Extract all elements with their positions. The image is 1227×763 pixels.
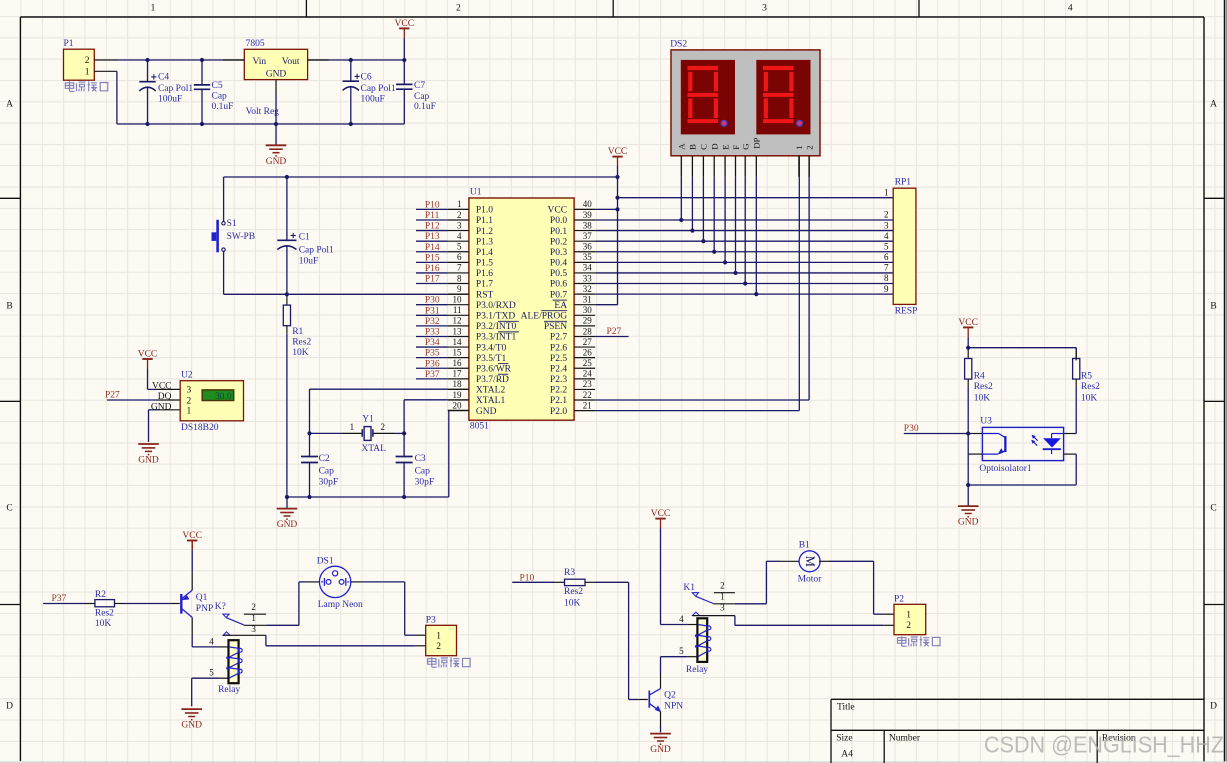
svg-text:Res2: Res2 <box>564 587 583 597</box>
svg-text:U1: U1 <box>470 188 482 198</box>
svg-text:38: 38 <box>583 220 593 230</box>
svg-text:P3.5/T1: P3.5/T1 <box>476 354 507 364</box>
svg-text:6: 6 <box>884 252 889 262</box>
svg-text:Relay: Relay <box>686 665 708 675</box>
svg-text:P37: P37 <box>52 594 67 604</box>
svg-text:22: 22 <box>583 390 592 400</box>
svg-text:2: 2 <box>251 602 256 612</box>
svg-text:P2.1: P2.1 <box>550 396 567 406</box>
svg-text:4: 4 <box>457 231 462 241</box>
svg-text:5: 5 <box>209 668 214 678</box>
svg-text:P16: P16 <box>425 264 440 274</box>
svg-text:RESP: RESP <box>895 306 918 316</box>
svg-text:Vin: Vin <box>253 57 267 67</box>
svg-text:34: 34 <box>583 263 593 273</box>
svg-text:7805: 7805 <box>246 39 265 49</box>
svg-text:2: 2 <box>380 422 385 432</box>
svg-text:B1: B1 <box>799 540 810 550</box>
svg-text:R5: R5 <box>1081 372 1092 382</box>
svg-text:4: 4 <box>884 231 889 241</box>
svg-text:P3.1/TXD: P3.1/TXD <box>476 312 515 322</box>
svg-text:24: 24 <box>583 369 593 379</box>
svg-text:XTAL2: XTAL2 <box>476 386 506 396</box>
svg-text:11: 11 <box>453 305 462 315</box>
svg-text:R1: R1 <box>292 327 303 337</box>
svg-text:P0.6: P0.6 <box>550 280 567 290</box>
svg-text:P33: P33 <box>425 327 440 337</box>
svg-text:P3.4/T0: P3.4/T0 <box>476 343 507 353</box>
svg-text:7: 7 <box>884 263 889 273</box>
svg-text:1: 1 <box>906 611 911 621</box>
svg-text:P2.0: P2.0 <box>550 407 567 417</box>
svg-text:8: 8 <box>884 273 889 283</box>
svg-text:5: 5 <box>679 646 684 656</box>
svg-text:PSEN: PSEN <box>544 322 567 332</box>
svg-text:3: 3 <box>251 624 256 634</box>
svg-text:14: 14 <box>453 337 463 347</box>
svg-text:25: 25 <box>583 358 593 368</box>
svg-text:P0.1: P0.1 <box>550 227 567 237</box>
svg-text:3: 3 <box>720 603 725 613</box>
svg-text:33: 33 <box>583 273 593 283</box>
svg-text:29: 29 <box>583 316 593 326</box>
svg-text:P1.7: P1.7 <box>476 280 493 290</box>
svg-text:Q2: Q2 <box>664 690 676 700</box>
svg-text:23: 23 <box>583 379 593 389</box>
svg-text:A: A <box>1210 100 1217 110</box>
svg-text:M: M <box>803 556 817 567</box>
svg-text:NPN: NPN <box>664 702 683 712</box>
svg-text:GND: GND <box>181 721 202 731</box>
svg-text:1: 1 <box>350 422 355 432</box>
svg-text:P3.3/INT1: P3.3/INT1 <box>476 333 517 343</box>
svg-text:19: 19 <box>453 390 463 400</box>
svg-text:VCC: VCC <box>548 206 568 216</box>
svg-text:P11: P11 <box>425 211 440 221</box>
svg-text:C2: C2 <box>319 454 330 464</box>
svg-text:2: 2 <box>85 56 90 66</box>
svg-text:10K: 10K <box>1081 394 1098 404</box>
svg-text:GND: GND <box>476 407 497 417</box>
svg-text:10K: 10K <box>95 619 112 629</box>
svg-text:A: A <box>6 100 13 110</box>
svg-text:P1.5: P1.5 <box>476 259 493 269</box>
svg-text:P0.7: P0.7 <box>550 290 567 300</box>
svg-text:P13: P13 <box>425 232 440 242</box>
svg-text:10K: 10K <box>564 598 581 608</box>
svg-text:1: 1 <box>794 145 804 149</box>
svg-text:18: 18 <box>453 379 463 389</box>
svg-text:D: D <box>710 143 720 149</box>
svg-text:1: 1 <box>457 199 462 209</box>
svg-text:20: 20 <box>453 400 463 410</box>
svg-text:Cap Pol1: Cap Pol1 <box>158 84 193 94</box>
svg-text:Cap Pol1: Cap Pol1 <box>299 246 334 256</box>
svg-text:37: 37 <box>583 231 593 241</box>
svg-text:10K: 10K <box>292 348 309 358</box>
svg-text:2: 2 <box>457 210 462 220</box>
svg-text:C: C <box>699 144 709 150</box>
svg-text:17: 17 <box>453 369 463 379</box>
svg-text:XTAL: XTAL <box>361 444 386 454</box>
svg-text:3: 3 <box>762 3 767 13</box>
svg-text:27: 27 <box>583 337 593 347</box>
svg-text:8051: 8051 <box>470 421 489 431</box>
svg-text:P37: P37 <box>425 370 440 380</box>
svg-text:A4: A4 <box>841 749 853 759</box>
svg-text:P2.5: P2.5 <box>550 354 567 364</box>
svg-text:P1.0: P1.0 <box>476 206 493 216</box>
svg-text:P0.4: P0.4 <box>550 259 567 269</box>
svg-text:100uF: 100uF <box>158 95 182 105</box>
svg-text:Res2: Res2 <box>292 338 311 348</box>
svg-text:2: 2 <box>187 396 192 406</box>
svg-text:VCC: VCC <box>182 531 202 541</box>
svg-text:D: D <box>6 702 13 712</box>
svg-text:Optoisolator1: Optoisolator1 <box>979 464 1031 474</box>
svg-text:Size: Size <box>836 733 852 743</box>
svg-text:U3: U3 <box>980 416 992 426</box>
svg-text:C1: C1 <box>299 233 310 243</box>
svg-text:DS1: DS1 <box>317 556 334 566</box>
svg-text:2: 2 <box>456 3 461 13</box>
svg-text:15: 15 <box>453 347 463 357</box>
svg-text:P14: P14 <box>425 243 440 253</box>
svg-text:30pF: 30pF <box>319 478 339 488</box>
svg-text:EA: EA <box>554 301 567 311</box>
svg-text:ALE/PROG: ALE/PROG <box>521 312 568 322</box>
svg-text:B: B <box>1210 302 1216 312</box>
svg-text:Res2: Res2 <box>95 608 114 618</box>
svg-text:Title: Title <box>837 703 855 713</box>
svg-text:2: 2 <box>720 580 725 590</box>
svg-text:Lamp Neon: Lamp Neon <box>318 600 363 610</box>
svg-text:Cap: Cap <box>414 92 430 102</box>
svg-text:P2: P2 <box>894 594 904 604</box>
svg-text:10K: 10K <box>974 394 991 404</box>
svg-text:GND: GND <box>266 70 287 80</box>
svg-text:Volt Reg: Volt Reg <box>246 107 280 117</box>
svg-text:16: 16 <box>453 358 463 368</box>
svg-text:3: 3 <box>187 386 192 396</box>
svg-text:P1.1: P1.1 <box>476 216 493 226</box>
svg-text:2: 2 <box>884 210 889 220</box>
svg-text:C5: C5 <box>212 81 223 91</box>
svg-text:Cap: Cap <box>415 467 431 477</box>
svg-text:K?: K? <box>215 602 226 612</box>
svg-text:P10: P10 <box>425 200 440 210</box>
svg-text:P0.5: P0.5 <box>550 269 567 279</box>
svg-text:DS18B20: DS18B20 <box>181 423 219 433</box>
svg-text:2: 2 <box>804 145 814 149</box>
svg-text:1: 1 <box>151 3 156 13</box>
svg-text:4: 4 <box>679 614 684 624</box>
svg-text:G: G <box>741 143 751 150</box>
svg-text:C3: C3 <box>415 454 426 464</box>
svg-text:7: 7 <box>457 263 462 273</box>
svg-text:32: 32 <box>583 284 592 294</box>
svg-text:R2: R2 <box>95 590 106 600</box>
svg-text:P2.7: P2.7 <box>550 333 567 343</box>
svg-text:B: B <box>688 144 698 150</box>
svg-text:K1: K1 <box>683 583 695 593</box>
svg-text:P3.7/RD: P3.7/RD <box>476 375 509 385</box>
svg-text:Number: Number <box>889 733 921 743</box>
svg-text:S1: S1 <box>227 219 237 229</box>
svg-text:Cap: Cap <box>212 92 228 102</box>
svg-text:B: B <box>6 302 12 312</box>
svg-text:VCC: VCC <box>395 19 415 29</box>
svg-text:Y1: Y1 <box>362 415 374 425</box>
svg-text:1: 1 <box>251 613 256 623</box>
svg-text:35: 35 <box>583 252 593 262</box>
svg-text:Vout: Vout <box>282 57 300 67</box>
svg-text:P35: P35 <box>425 349 440 359</box>
svg-text:Res2: Res2 <box>1081 382 1100 392</box>
svg-text:P12: P12 <box>425 222 440 232</box>
svg-text:1: 1 <box>436 632 441 642</box>
svg-text:5: 5 <box>457 242 462 252</box>
svg-text:2: 2 <box>436 642 441 652</box>
svg-text:VCC: VCC <box>152 381 172 391</box>
svg-text:P3.0/RXD: P3.0/RXD <box>476 301 516 311</box>
svg-text:P30: P30 <box>904 424 919 434</box>
svg-text:P2.3: P2.3 <box>550 375 567 385</box>
svg-text:P31: P31 <box>425 306 440 316</box>
svg-text:8: 8 <box>457 273 462 283</box>
svg-text:9: 9 <box>457 284 462 294</box>
svg-text:VCC: VCC <box>651 509 671 519</box>
svg-text:P1.2: P1.2 <box>476 227 493 237</box>
svg-text:9: 9 <box>884 284 889 294</box>
svg-text:12: 12 <box>453 316 462 326</box>
svg-text:13: 13 <box>453 326 463 336</box>
svg-text:1: 1 <box>884 187 889 197</box>
svg-text:30pF: 30pF <box>415 478 435 488</box>
svg-text:P3.2/INT0: P3.2/INT0 <box>476 322 517 332</box>
svg-text:P36: P36 <box>425 359 440 369</box>
svg-text:39: 39 <box>583 210 593 220</box>
svg-text:P27: P27 <box>105 391 120 401</box>
svg-text:R4: R4 <box>974 372 985 382</box>
svg-text:21: 21 <box>583 400 592 410</box>
svg-text:5: 5 <box>884 241 889 251</box>
svg-text:SW-PB: SW-PB <box>227 232 256 242</box>
svg-text:10uF: 10uF <box>299 257 319 267</box>
svg-text:0.1uF: 0.1uF <box>212 102 234 112</box>
svg-text:28: 28 <box>583 326 593 336</box>
svg-text:P2.4: P2.4 <box>550 364 567 374</box>
svg-text:P0.2: P0.2 <box>550 237 567 247</box>
svg-text:CSDN @ENGLISH_HHZ: CSDN @ENGLISH_HHZ <box>984 732 1224 758</box>
svg-text:VCC: VCC <box>138 350 158 360</box>
svg-text:4: 4 <box>209 636 214 646</box>
svg-text:U2: U2 <box>181 371 193 381</box>
svg-text:3: 3 <box>884 220 889 230</box>
svg-text:30.0: 30.0 <box>215 392 232 402</box>
svg-text:P32: P32 <box>425 317 440 327</box>
svg-text:30: 30 <box>583 305 593 315</box>
svg-text:F: F <box>731 145 741 150</box>
svg-text:2: 2 <box>906 621 911 631</box>
svg-text:10: 10 <box>453 295 463 305</box>
svg-text:0.1uF: 0.1uF <box>414 102 436 112</box>
svg-text:RP1: RP1 <box>895 178 912 188</box>
svg-text:P2.6: P2.6 <box>550 343 567 353</box>
svg-text:C4: C4 <box>158 73 169 83</box>
svg-text:D: D <box>1210 702 1217 712</box>
svg-text:P1.4: P1.4 <box>476 248 493 258</box>
svg-text:1: 1 <box>187 407 192 417</box>
svg-text:P34: P34 <box>425 338 440 348</box>
svg-text:Res2: Res2 <box>974 382 993 392</box>
svg-text:C7: C7 <box>414 81 425 91</box>
svg-text:P3.6/WR: P3.6/WR <box>476 364 512 374</box>
svg-text:P30: P30 <box>425 296 440 306</box>
svg-text:R3: R3 <box>564 568 575 578</box>
svg-text:GND: GND <box>277 520 298 530</box>
svg-text:C6: C6 <box>361 73 372 83</box>
svg-text:3: 3 <box>457 220 462 230</box>
svg-text:1: 1 <box>720 592 725 602</box>
svg-text:Q1: Q1 <box>196 593 208 603</box>
svg-text:E: E <box>720 144 730 149</box>
svg-text:XTAL1: XTAL1 <box>476 396 506 406</box>
svg-text:PNP: PNP <box>196 604 213 614</box>
svg-text:VCC: VCC <box>608 147 628 157</box>
svg-text:P27: P27 <box>607 327 622 337</box>
svg-text:GND: GND <box>138 456 159 466</box>
svg-text:1: 1 <box>85 67 90 77</box>
svg-text:DP: DP <box>752 137 762 148</box>
svg-text:RST: RST <box>476 290 494 300</box>
svg-text:A: A <box>677 143 687 150</box>
svg-text:DS2: DS2 <box>670 39 687 49</box>
svg-text:4: 4 <box>1068 3 1073 13</box>
svg-text:P15: P15 <box>425 253 440 263</box>
svg-text:P2.2: P2.2 <box>550 386 567 396</box>
svg-text:Motor: Motor <box>798 575 823 585</box>
svg-text:P0.3: P0.3 <box>550 248 567 258</box>
svg-text:40: 40 <box>583 199 593 209</box>
svg-text:Cap: Cap <box>319 467 335 477</box>
svg-text:GND: GND <box>266 157 287 167</box>
svg-text:26: 26 <box>583 347 593 357</box>
svg-text:P1: P1 <box>64 39 74 49</box>
svg-text:VCC: VCC <box>958 318 978 328</box>
svg-text:P1.6: P1.6 <box>476 269 493 279</box>
svg-text:P3: P3 <box>426 615 436 625</box>
svg-text:P0.0: P0.0 <box>550 216 567 226</box>
svg-text:P17: P17 <box>425 275 440 285</box>
svg-text:GND: GND <box>958 518 979 528</box>
svg-text:DQ: DQ <box>158 392 172 402</box>
svg-text:Relay: Relay <box>218 685 240 695</box>
svg-text:C: C <box>6 504 12 514</box>
svg-text:Cap Pol1: Cap Pol1 <box>361 84 396 94</box>
svg-text:GND: GND <box>650 745 671 755</box>
svg-text:C: C <box>1210 504 1216 514</box>
svg-text:36: 36 <box>583 242 593 252</box>
svg-text:GND: GND <box>151 402 172 412</box>
svg-text:P1.3: P1.3 <box>476 237 493 247</box>
svg-text:100uF: 100uF <box>361 94 385 104</box>
svg-text:31: 31 <box>583 295 592 305</box>
svg-text:6: 6 <box>457 252 462 262</box>
